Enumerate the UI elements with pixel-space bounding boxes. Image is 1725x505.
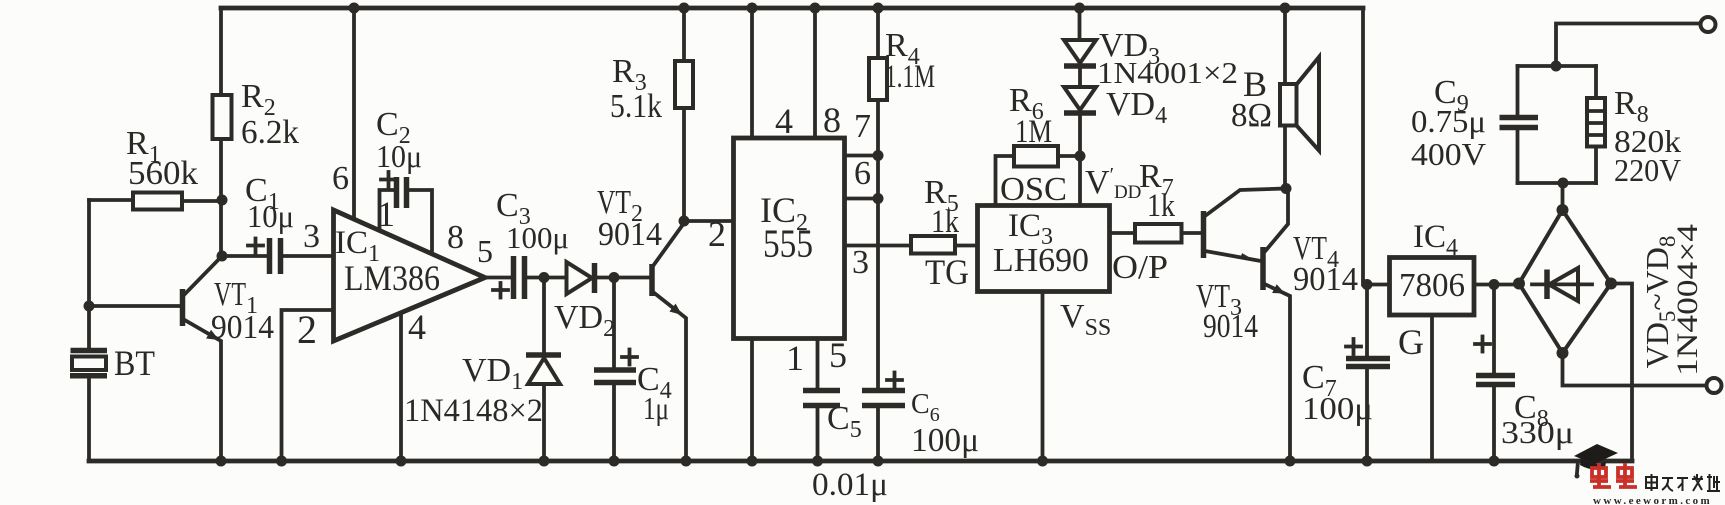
- node AC feed junction: [1551, 61, 1562, 72]
- svg-text:7: 7: [854, 108, 871, 145]
- node pin4 ground: [396, 456, 407, 467]
- svg-text:100μ: 100μ: [506, 220, 569, 255]
- node VT4 emitter ground: [1285, 456, 1296, 467]
- svg-text:5: 5: [829, 335, 847, 375]
- transistor VT1: [89, 257, 274, 461]
- terminal AC input 2: [1707, 378, 1722, 393]
- capacitor C9: [1411, 66, 1538, 183]
- node VT2 collector junction: [679, 216, 690, 227]
- capacitor C8: [1475, 285, 1574, 462]
- wire top-left vertical to R2: [219, 8, 223, 95]
- svg-text:LM386: LM386: [344, 258, 440, 298]
- resistor R7: [1110, 158, 1202, 286]
- wire bridge top lead: [1561, 183, 1565, 210]
- svg-text:www.eeworm.com: www.eeworm.com: [1593, 495, 1712, 505]
- wire regulator input from bridge: [1474, 283, 1519, 287]
- svg-text:1: 1: [786, 338, 804, 378]
- diode VD1: [404, 278, 561, 462]
- capacitor C7: [1302, 285, 1390, 462]
- svg-text:LH690: LH690: [993, 242, 1089, 279]
- wire pin 6: [332, 8, 354, 219]
- svg-text:2: 2: [708, 214, 726, 254]
- diode VD4: [1064, 86, 1167, 129]
- svg-text:4: 4: [408, 307, 426, 347]
- wire 555 pin 6: [845, 155, 879, 199]
- svg-text:0.01μ: 0.01μ: [812, 467, 888, 503]
- wire C9/R8 top: [1518, 64, 1597, 68]
- svg-text:C6: C6: [911, 389, 940, 426]
- resistor R1: [89, 125, 222, 210]
- diode VD2: [554, 262, 650, 342]
- wire 555 pin 8: [815, 8, 841, 140]
- node VD1 ground: [539, 456, 550, 467]
- transistor VT3: [1196, 189, 1285, 346]
- svg-text:IC4: IC4: [1413, 219, 1458, 261]
- resistor R8: [1587, 66, 1681, 188]
- svg-text:4: 4: [775, 101, 793, 141]
- wire top supply rail: [221, 6, 1363, 11]
- OSC box: [996, 156, 1081, 208]
- svg-text:100μ: 100μ: [911, 422, 979, 459]
- capacitor C1: [245, 172, 294, 274]
- terminal AC input 1: [1701, 17, 1716, 32]
- node 555 pin8 top rail: [810, 3, 821, 14]
- svg-text:3: 3: [852, 244, 869, 281]
- wire AC terminal 1: [1556, 24, 1700, 67]
- resistor R6: [1009, 82, 1058, 167]
- resistor R5: [911, 174, 978, 292]
- wire R2 bottom to node: [219, 139, 223, 200]
- node 555 pin4 top rail: [747, 3, 758, 14]
- node C6 ground: [873, 456, 884, 467]
- op-amp IC1 LM386: [334, 210, 486, 341]
- node VT2 emitter ground: [681, 456, 692, 467]
- node speaker top rail: [1280, 3, 1291, 14]
- wire C9/R8 bottom: [1518, 181, 1597, 185]
- svg-text:1k: 1k: [1147, 188, 1175, 224]
- node VD3 top rail: [1074, 3, 1085, 14]
- IC U2 555 timer: [734, 138, 845, 339]
- wire 555 pin 2: [684, 214, 734, 254]
- node pin7 junction: [873, 150, 884, 161]
- svg-text:220V: 220V: [1614, 152, 1681, 188]
- node Vss ground: [1037, 456, 1048, 467]
- IC U3 LH690: [978, 206, 1110, 292]
- node pin1 ground: [747, 456, 758, 467]
- capacitor C2 pin1 to pin8: [376, 106, 464, 256]
- svg-text:G: G: [1398, 322, 1424, 362]
- svg-text:9014: 9014: [1203, 308, 1258, 345]
- node pin6 top rail: [349, 3, 360, 14]
- node C5 ground: [812, 456, 823, 467]
- svg-text:8: 8: [447, 219, 464, 256]
- svg-text:O/P: O/P: [1112, 249, 1168, 286]
- svg-text:6.2k: 6.2k: [241, 114, 299, 151]
- svg-text:10μ: 10μ: [376, 138, 422, 174]
- wire top rail corner to regulator output: [1363, 8, 1390, 285]
- capacitor C3: [493, 187, 569, 299]
- node VT1 emitter ground: [216, 456, 227, 467]
- wire 555 pin 7: [845, 108, 879, 156]
- wire node to C1: [221, 200, 268, 256]
- loudspeaker B 8ohm: [1231, 8, 1319, 189]
- svg-text:6: 6: [854, 155, 871, 192]
- svg-text:1.1M: 1.1M: [885, 59, 935, 95]
- svg-text:8: 8: [823, 100, 841, 140]
- wire bridge negative to ground rail: [1611, 284, 1632, 462]
- svg-text:5: 5: [477, 233, 493, 269]
- watermark url: [1593, 495, 1712, 505]
- capacitor C5: [803, 335, 888, 503]
- node pin6 junction: [873, 193, 884, 204]
- svg-text:6: 6: [332, 160, 349, 197]
- svg-text:0.75μ: 0.75μ: [1411, 103, 1486, 139]
- IC U4 regulator 7806: [1390, 219, 1475, 315]
- svg-text:C5: C5: [827, 400, 862, 443]
- wire bridge bottom to AC terminal 2: [1563, 353, 1707, 386]
- svg-text:TG: TG: [925, 252, 969, 292]
- wire pin 2: [282, 307, 334, 461]
- resistor R2: [213, 78, 300, 151]
- capacitor C6: [862, 373, 979, 462]
- svg-text:VD1: VD1: [462, 352, 523, 395]
- svg-text:1N4001×2: 1N4001×2: [1097, 55, 1238, 90]
- wire 555 pin 4: [752, 8, 793, 141]
- svg-text:3: 3: [303, 218, 320, 255]
- wire pin 4: [401, 307, 426, 461]
- svg-text:100μ: 100μ: [1302, 390, 1373, 426]
- node C8 ground: [1489, 456, 1500, 467]
- svg-text:10μ: 10μ: [247, 198, 294, 234]
- wire left vertical: [87, 200, 91, 348]
- piezo transducer BT: [70, 343, 155, 461]
- transistor VT2: [597, 184, 686, 461]
- wire regulator ground pin G: [1398, 315, 1432, 461]
- svg-text:555: 555: [763, 221, 813, 266]
- wire bottom ground rail: [89, 459, 1632, 464]
- svg-text:560k: 560k: [128, 155, 198, 192]
- resistor R4: [869, 8, 935, 389]
- svg-text:8Ω: 8Ω: [1231, 97, 1272, 134]
- svg-text:V′DD: V′DD: [1085, 164, 1141, 203]
- node C4 ground: [609, 456, 620, 467]
- svg-text:5.1k: 5.1k: [610, 88, 662, 125]
- capacitor C4: [594, 278, 672, 462]
- node pin2 ground: [276, 456, 287, 467]
- svg-text:1M: 1M: [1015, 114, 1052, 150]
- svg-text:7806: 7806: [1399, 267, 1465, 304]
- node C4 tap: [609, 272, 620, 283]
- svg-text:9014: 9014: [211, 309, 274, 346]
- bridge rectifier VD5-VD8: [1513, 204, 1704, 376]
- svg-text:9014: 9014: [1293, 261, 1358, 298]
- svg-text:2: 2: [297, 307, 317, 352]
- svg-text:R8: R8: [1614, 85, 1649, 128]
- node VD1 tap: [539, 272, 550, 283]
- wire Vdd vertical: [1080, 113, 1141, 206]
- wire 555 pin 1: [752, 338, 804, 461]
- svg-text:9014: 9014: [598, 216, 662, 253]
- resistor R3: [610, 8, 693, 221]
- node speaker collector junction: [1281, 183, 1292, 194]
- node C7 ground: [1362, 456, 1373, 467]
- svg-text:VD4: VD4: [1106, 86, 1167, 129]
- node C1 left junction: [217, 251, 228, 262]
- svg-text:1N4004×4: 1N4004×4: [1671, 224, 1704, 376]
- node C7 tap: [1362, 279, 1373, 290]
- svg-text:BT: BT: [114, 343, 155, 383]
- node R3 top rail: [679, 3, 690, 14]
- node C8 tap: [1489, 279, 1500, 290]
- watermark graduation cap logo: [1574, 444, 1618, 479]
- svg-text:400V: 400V: [1411, 136, 1486, 172]
- wire C1 to pin 3: [281, 218, 333, 256]
- svg-text:330μ: 330μ: [1501, 414, 1574, 450]
- svg-text:1k: 1k: [931, 204, 959, 240]
- diode VD3: [1064, 8, 1238, 90]
- node R1/R2 junction: [217, 195, 228, 206]
- wire 555 pin 3 output: [845, 244, 912, 281]
- node VT1 base tap: [84, 301, 95, 312]
- node Vdd junction: [1075, 151, 1086, 162]
- watermark site name glyphs: [1646, 474, 1720, 491]
- wire Vss to ground: [1043, 292, 1112, 462]
- svg-text:VSS: VSS: [1060, 298, 1111, 341]
- svg-text:VD2: VD2: [554, 299, 615, 342]
- svg-text:OSC: OSC: [1000, 171, 1067, 208]
- watermark chongchong red glyphs: [1590, 463, 1637, 487]
- svg-text:1μ: 1μ: [643, 390, 669, 426]
- svg-text:1: 1: [377, 194, 395, 234]
- wire pin 5 output: [477, 233, 512, 278]
- transistor VT4: [1263, 190, 1358, 461]
- node C9/R8 bottom junction: [1558, 178, 1569, 189]
- node R4 top rail: [873, 3, 884, 14]
- svg-text:1N4148×2: 1N4148×2: [404, 393, 543, 429]
